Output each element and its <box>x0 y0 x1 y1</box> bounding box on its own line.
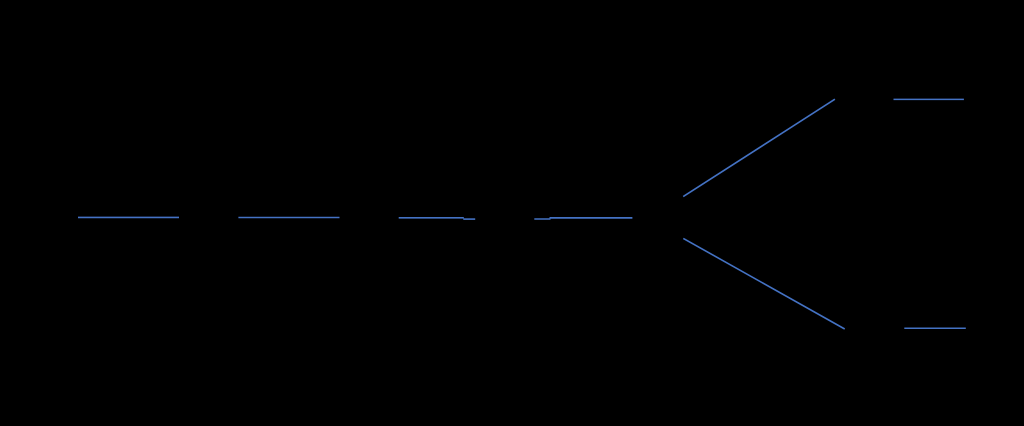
wire: upper branch diagonal <box>683 99 835 196</box>
wire: incoming segment 2 <box>238 217 339 219</box>
wire: upper branch output segment <box>894 98 964 100</box>
wire: incoming segment 3 <box>399 218 476 219</box>
component (hidden black) inline on main line, gap 2 <box>341 209 397 226</box>
wire: incoming segment 1 <box>78 216 179 218</box>
wire: lower branch output segment <box>904 327 966 329</box>
component (hidden black) inline on main line, gap 1 <box>181 209 237 226</box>
component (hidden black) on upper branch <box>837 91 891 107</box>
wire: lower branch diagonal <box>683 238 844 329</box>
component (hidden black) inline on main line, gap 3 <box>477 210 533 227</box>
component (hidden black) on lower branch <box>846 320 902 336</box>
node: branch junction (hidden black vertex) <box>634 196 682 240</box>
wire: incoming segment 4 <box>534 218 632 219</box>
